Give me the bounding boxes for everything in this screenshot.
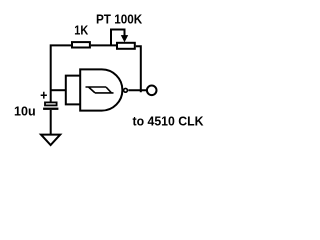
NAND gate U1 body [80,69,122,110]
potentiometer PT body [117,43,135,49]
wire: PT right, corner, feedback vertical down to output node [136,46,141,92]
potentiometer wiper arrow [121,35,127,41]
svg-text:to 4510 CLK: to 4510 CLK [133,115,204,129]
wire: left vertical from top corner down to capacitor, with top horizontal to R1 [51,45,71,101]
terminal circle to 4510 CLK [147,86,157,96]
resistor R1 1K body [72,42,90,47]
wire: gate input tie (both inputs joined) [66,76,80,105]
wire: input feed from left vertical to gate input tie [51,89,66,91]
wire: gate output to terminal [128,89,146,91]
wire: capacitor to ground [50,110,52,134]
svg-text:PT 100K: PT 100K [96,13,142,27]
potentiometer wiper loop wire [111,30,125,46]
ground symbol [41,135,60,145]
inverting output bubble [124,88,128,92]
svg-text:1K: 1K [74,24,88,38]
capacitor C1 bottom plate [43,108,58,110]
capacitor C1 top plate [45,102,57,105]
svg-text:10u: 10u [14,105,36,119]
schmitt trigger hysteresis symbol [86,87,114,93]
wire: R1 right to PT left [91,44,117,46]
capacitor C1 plus sign [41,92,47,99]
